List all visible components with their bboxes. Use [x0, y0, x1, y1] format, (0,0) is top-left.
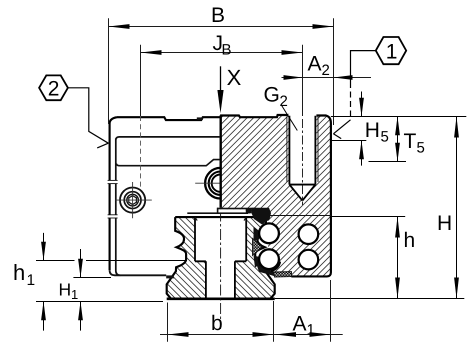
dimension H — [456, 117, 458, 299]
rail top edge — [175, 216, 266, 218]
balloon 2 — [39, 75, 108, 147]
clip tick lower — [108, 215, 118, 218]
end cap second vertical — [116, 139, 121, 276]
screw M1 crosshair — [115, 182, 152, 218]
screw M1 inner circle — [127, 194, 139, 206]
lower seal wedge — [257, 265, 275, 277]
ball upper-left — [259, 223, 279, 243]
dimension h — [397, 217, 399, 299]
rail bolt counterbore — [195, 217, 246, 298]
lube hole G2 walls — [289, 116, 315, 201]
carriage right edge — [291, 123, 331, 276]
svg-text:h: h — [13, 260, 25, 285]
race insert strip lower — [254, 256, 262, 268]
ball lower-left — [259, 249, 279, 269]
svg-text:5: 5 — [381, 129, 389, 146]
end cap bottom edge — [110, 270, 167, 275]
end cap inner top line — [116, 137, 220, 140]
svg-text:2: 2 — [280, 93, 288, 110]
screw M1 outer circle — [120, 188, 145, 213]
svg-text:1: 1 — [307, 322, 315, 339]
screw M1 hex socket — [129, 196, 137, 205]
rail hole chamfers — [195, 217, 246, 221]
balloon 1 — [333, 37, 406, 139]
slot gap under end cap — [217, 208, 256, 210]
seal lip arc on lower ball — [271, 262, 280, 271]
svg-text:X: X — [227, 65, 242, 90]
ball lower-right — [299, 250, 319, 270]
screw M1 mid circle — [124, 192, 141, 209]
hole axis G2 — [302, 119, 304, 205]
svg-text:1: 1 — [386, 40, 398, 63]
top surface extension line — [331, 116, 466, 118]
end cap top step block — [197, 117, 203, 120]
svg-text:1: 1 — [71, 287, 78, 302]
counterbore arcs at cut plane — [205, 168, 220, 199]
svg-text:H: H — [59, 280, 72, 300]
svg-text:2: 2 — [48, 78, 60, 101]
lube hole G2 white — [288, 114, 316, 185]
carriage cut edge at section plane — [219, 115, 221, 207]
race insert strip upper — [254, 227, 261, 242]
dimension b — [160, 280, 343, 342]
svg-text:2: 2 — [322, 62, 330, 79]
ball upper-right — [299, 224, 319, 244]
svg-text:B: B — [211, 4, 225, 27]
dimension h1 — [43, 233, 45, 261]
ball pocket white — [252, 213, 269, 272]
insert joint line — [267, 215, 331, 217]
end cap top edge — [117, 117, 220, 120]
dimension A2 — [282, 77, 372, 79]
bottom extension line right — [275, 298, 465, 300]
dimension B — [109, 18, 334, 125]
svg-text:H: H — [437, 212, 452, 235]
svg-text:H: H — [365, 119, 380, 142]
clip tick upper — [108, 180, 118, 183]
rail left profile — [167, 217, 186, 299]
dimension H1 — [80, 249, 82, 278]
svg-text:A: A — [308, 53, 322, 76]
svg-text:A: A — [293, 313, 307, 336]
svg-text:T: T — [404, 130, 417, 153]
rail bottom edge — [167, 297, 275, 300]
thread lines G2 — [287, 116, 318, 182]
svg-text:G: G — [264, 84, 280, 107]
seal wedge upper — [252, 208, 271, 225]
dimension JB — [141, 45, 303, 116]
svg-text:5: 5 — [417, 140, 425, 157]
rail axis — [220, 211, 222, 330]
dimension T5 — [397, 117, 399, 162]
section arrow X — [220, 66, 222, 93]
svg-text:b: b — [211, 312, 223, 335]
carriage section hatched body — [220, 115, 331, 276]
counterbore centerline — [195, 182, 219, 184]
rail hatched section — [167, 217, 275, 299]
dimension A1 — [275, 332, 296, 337]
svg-text:1: 1 — [27, 272, 36, 289]
checkered bottom seal strip — [274, 272, 292, 277]
svg-text:h: h — [404, 229, 416, 252]
checkered seal wedge — [253, 239, 263, 256]
dimension H5 — [361, 92, 363, 117]
svg-text:B: B — [222, 42, 232, 59]
end cap left outer edge — [110, 117, 117, 270]
end cap bottom tab — [166, 275, 174, 278]
rail right profile — [255, 217, 275, 299]
end cap mid lines — [116, 160, 220, 166]
carriage top edge — [220, 115, 331, 123]
